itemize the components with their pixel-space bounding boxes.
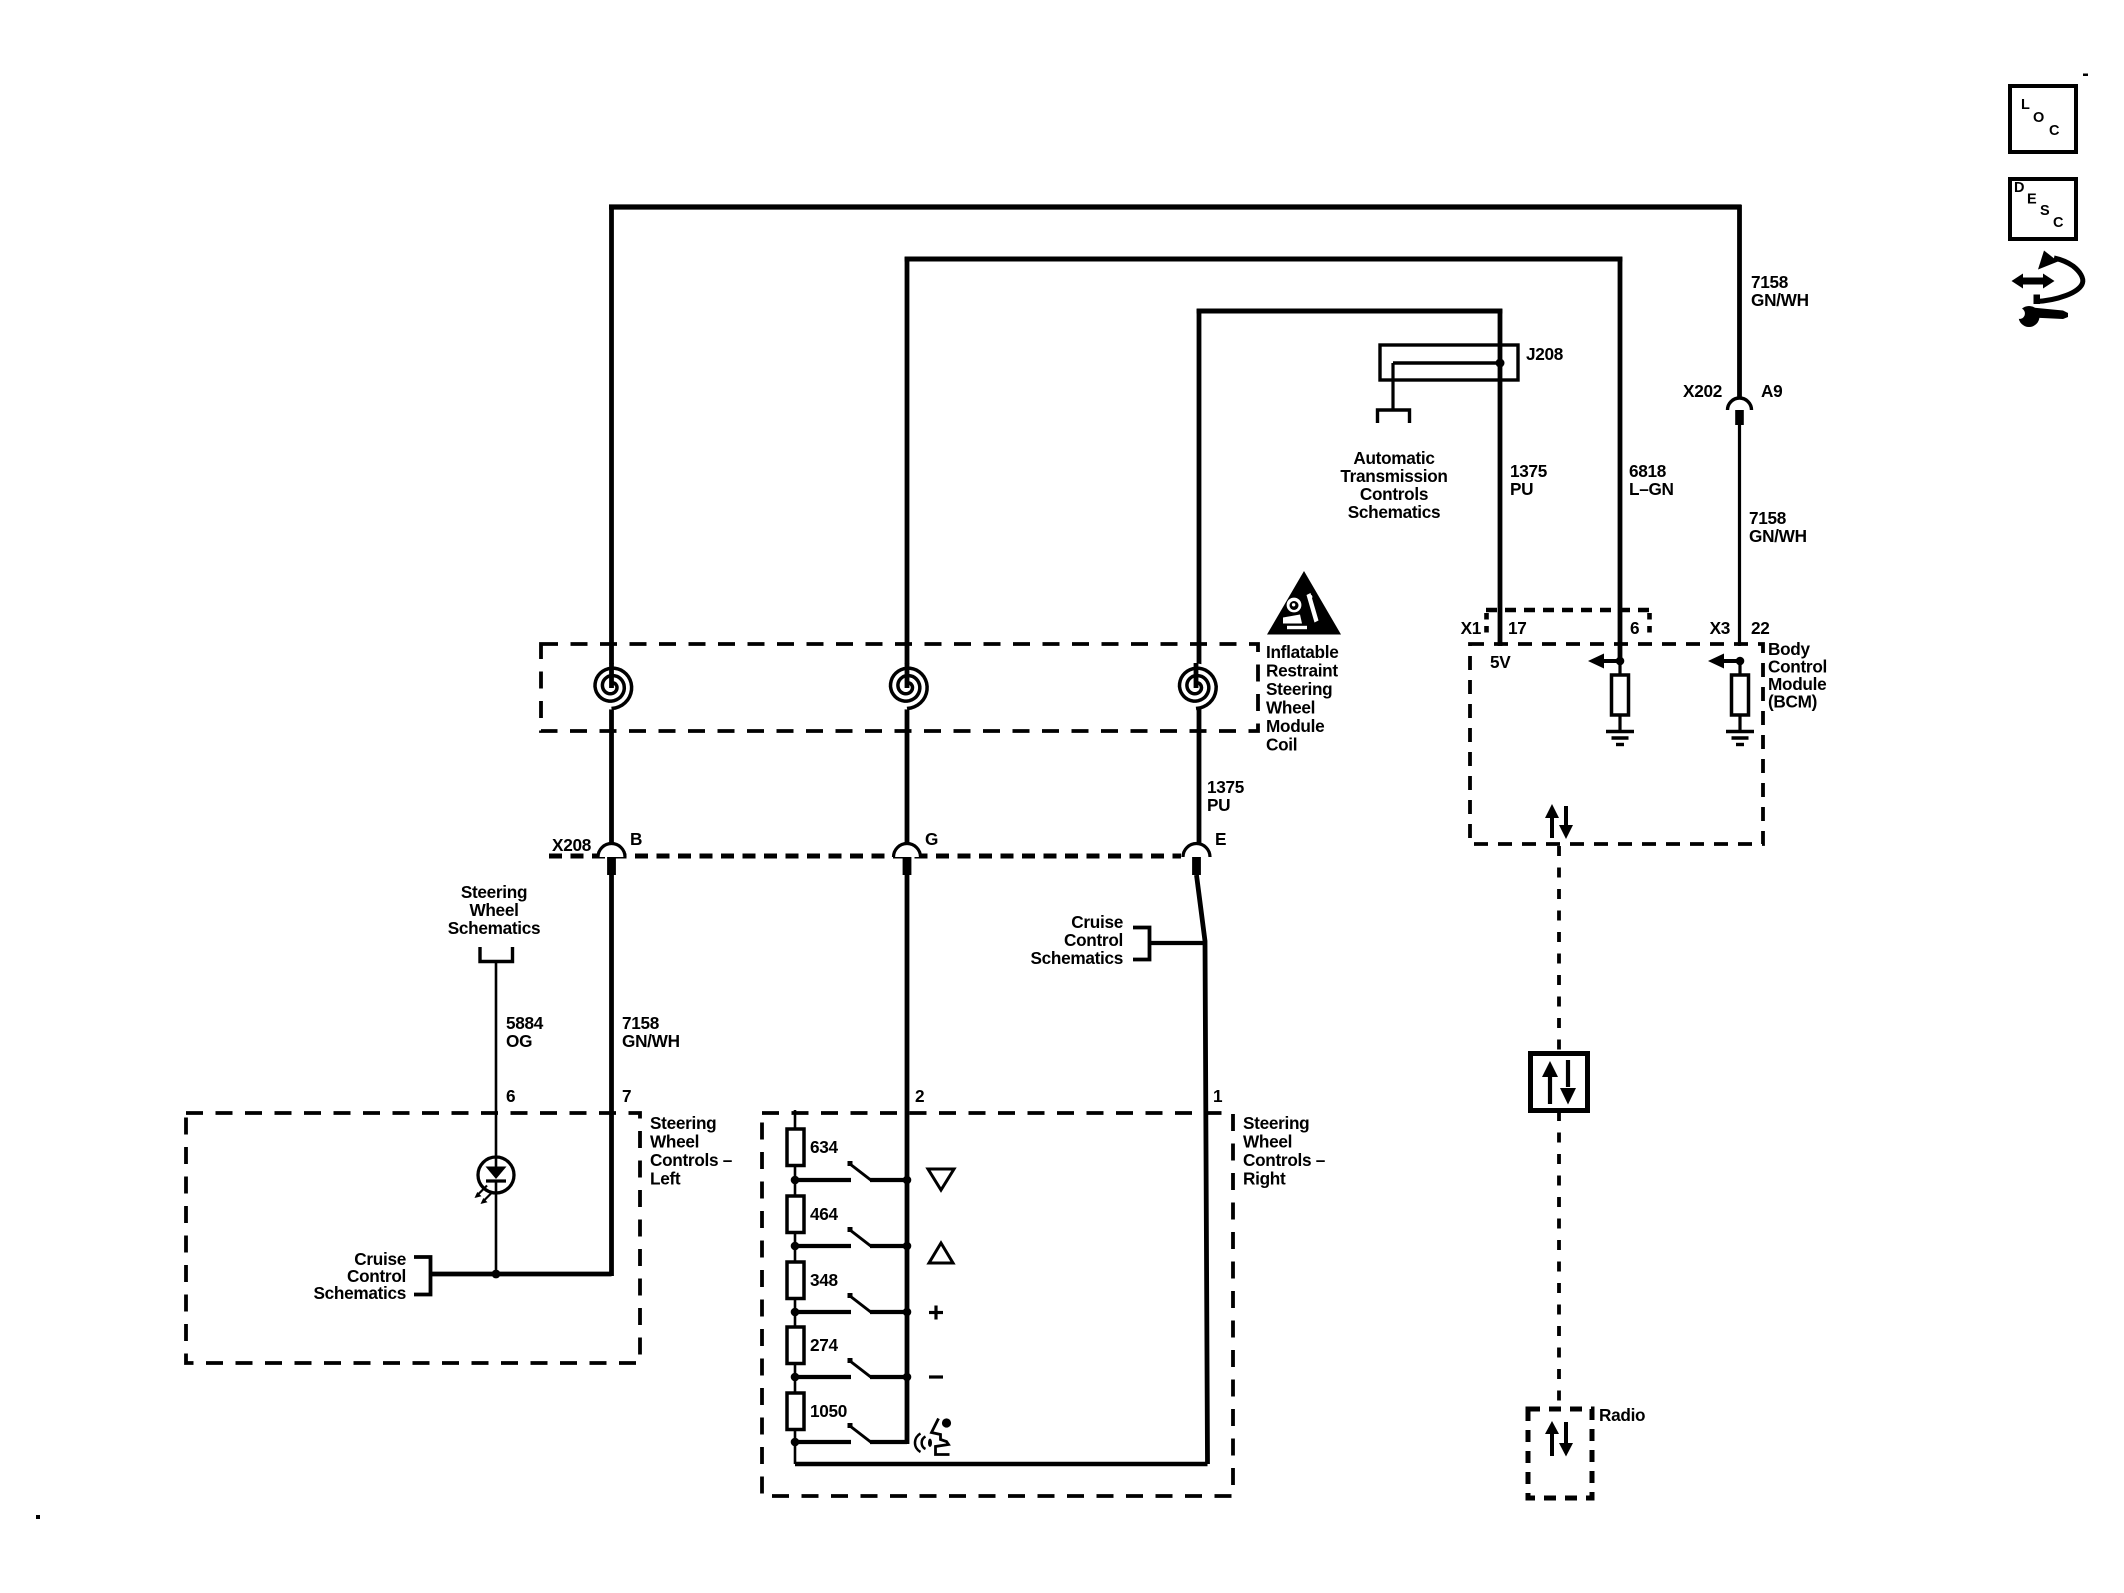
svg-text:464: 464 [810, 1204, 839, 1224]
connector X1 dotted bracket [1486, 608, 1649, 613]
wire 5884 below LED [495, 1193, 498, 1274]
svg-text:Wheel: Wheel [650, 1132, 699, 1152]
coil (clockspring) on wire G [884, 663, 930, 710]
svg-text:7158: 7158 [1751, 272, 1789, 292]
label 6818 L-GN [1629, 461, 1674, 499]
wire chain segment below 348 [794, 1298, 797, 1336]
svg-text:Schematics: Schematics [1030, 948, 1123, 968]
switch row at 1377 [791, 1358, 912, 1381]
label Automatic Transmission Controls Schematics [1340, 448, 1447, 522]
stray mark bottom left [36, 1515, 40, 1519]
svg-text:Radio: Radio [1599, 1405, 1645, 1425]
label 7158 GN/WH (left) [622, 1013, 680, 1051]
wire chain segment below 274 [794, 1363, 797, 1401]
resistor chain stub [794, 1110, 797, 1129]
radio serial data arrows [1545, 1421, 1573, 1457]
svg-text:A9: A9 [1761, 381, 1782, 401]
connector X202 A9 [1728, 398, 1752, 425]
svg-text:22: 22 [1751, 618, 1770, 638]
svg-text:PU: PU [1207, 795, 1230, 815]
svg-text:X3: X3 [1710, 618, 1730, 638]
svg-text:Controls: Controls [1360, 484, 1428, 504]
switch row at 1442 [791, 1423, 907, 1446]
connector X208 terminal B [598, 844, 625, 876]
svg-text:6818: 6818 [1629, 461, 1667, 481]
svg-text:Restraint: Restraint [1266, 661, 1338, 681]
wire 1375 E pigtail (slanted) [1197, 875, 1208, 1464]
svg-text:Schematics: Schematics [1348, 502, 1441, 522]
svg-text:Module: Module [1266, 716, 1324, 736]
label Cruise Control Schematics (right) [1030, 912, 1123, 968]
svg-text:C: C [2049, 123, 2060, 139]
label Inflatable Restraint Steering Wheel Module Coil [1266, 642, 1338, 755]
diagnostic jump icon [2012, 251, 2083, 328]
svg-text:Control: Control [1064, 930, 1123, 950]
wire 7158 GN/WH into left box [609, 875, 614, 1276]
connector X208 terminal G [894, 844, 921, 876]
wire 6818 L-GN right vertical (to BCM pin 6) [1618, 257, 1623, 662]
icon seek-up (open triangle up) [929, 1243, 953, 1263]
label 7158 GN/WH (below X202) [1749, 508, 1807, 546]
BCM internal pull-up at x=1740 [1708, 654, 1754, 745]
wire 1375 PU right vertical (through J208 to BCM pin 17) [1498, 309, 1503, 646]
svg-text:Steering: Steering [461, 882, 527, 902]
svg-text:B: B [630, 829, 642, 849]
svg-text:Inflatable: Inflatable [1266, 642, 1338, 662]
coil (clockspring) on wire B [589, 663, 635, 710]
BCM serial data arrows [1545, 804, 1573, 839]
connector X208 terminal E [1183, 844, 1210, 876]
svg-text:5884: 5884 [506, 1013, 544, 1033]
icon volume plus [929, 1306, 943, 1320]
svg-text:Controls –: Controls – [650, 1150, 733, 1170]
icon volume minus [929, 1375, 943, 1378]
svg-text:E: E [2027, 192, 2037, 208]
svg-text:D: D [2014, 180, 2024, 196]
svg-text:274: 274 [810, 1335, 839, 1355]
svg-text:Controls –: Controls – [1243, 1150, 1326, 1170]
ground symbol at x=1620 [1606, 732, 1634, 745]
wire 7158 GN/WH right vertical (to X202) [1737, 205, 1742, 398]
svg-text:Steering: Steering [650, 1113, 716, 1133]
svg-text:17: 17 [1508, 618, 1527, 638]
wire 6818 L-GN top horizontal [905, 257, 1623, 262]
svg-text:7158: 7158 [622, 1013, 660, 1033]
label Cruise Control Schematics (left) [313, 1249, 406, 1303]
wire J208 stem down [1391, 363, 1394, 410]
svg-text:Cruise: Cruise [1071, 912, 1123, 932]
Steering Wheel Controls Right dashed box [762, 1113, 1233, 1496]
label Steering Wheel Controls - Right [1243, 1113, 1326, 1189]
wire inside J208 [1393, 361, 1500, 364]
ground symbol at x=1740 [1726, 732, 1754, 745]
svg-text:348: 348 [810, 1270, 839, 1290]
junction dot J208 [1496, 359, 1505, 368]
wire 7158 GN/WH top horizontal [609, 204, 1742, 209]
Steering Wheel Controls Left dashed box [186, 1113, 640, 1363]
svg-text:J208: J208 [1526, 344, 1564, 364]
svg-text:1: 1 [1213, 1086, 1223, 1106]
wire chain segment below 634 [794, 1165, 797, 1204]
label Steering Wheel Controls - Left [650, 1113, 733, 1189]
coil (clockspring) on wire E [1173, 663, 1219, 710]
BCM internal pull-up at x=1620 [1588, 654, 1634, 745]
label 1375 PU (above X208 E) [1207, 777, 1245, 815]
Radio dashed box [1528, 1409, 1592, 1498]
svg-text:GN/WH: GN/WH [622, 1031, 680, 1051]
junction dot 5884/cruise [492, 1270, 501, 1279]
svg-text:634: 634 [810, 1137, 839, 1157]
wire 7158 GN/WH X202 to BCM [1738, 425, 1741, 646]
resistor 464 ohm [787, 1196, 839, 1233]
svg-text:G: G [925, 829, 938, 849]
wire 7158 GN/WH left vertical (to X208 B) [609, 205, 614, 844]
switch row at 1180 [791, 1161, 912, 1184]
svg-text:S: S [2040, 203, 2050, 219]
svg-text:C: C [2053, 215, 2064, 231]
svg-text:Transmission: Transmission [1340, 466, 1447, 486]
icon seek-down (open triangle down) [928, 1169, 954, 1190]
wire 6818 bus into right box [905, 875, 910, 1444]
svg-text:5V: 5V [1490, 652, 1511, 672]
serial data dashed wire BCM to gateway [1557, 846, 1561, 1052]
svg-text:Coil: Coil [1266, 735, 1297, 755]
wire 1375 PU left vertical (to X208 E) [1197, 309, 1202, 844]
label Body Control Module (BCM) [1768, 639, 1827, 712]
splice J208 box [1380, 345, 1518, 380]
svg-text:X1: X1 [1461, 618, 1482, 638]
svg-text:Steering: Steering [1243, 1113, 1309, 1133]
svg-text:Wheel: Wheel [1243, 1132, 1292, 1152]
svg-text:Wheel: Wheel [1266, 698, 1315, 718]
switch row at 1246 [791, 1227, 912, 1250]
resistor 348 ohm [787, 1262, 839, 1299]
wire 6818 L-GN left vertical (to X208 G) [905, 257, 910, 844]
label 5884 OG [506, 1013, 544, 1051]
svg-text:OG: OG [506, 1031, 532, 1051]
wire chain segment below 1050 [794, 1429, 797, 1464]
svg-text:7158: 7158 [1749, 508, 1787, 528]
icon voice recognition [915, 1418, 951, 1454]
svg-text:Wheel: Wheel [469, 900, 518, 920]
Body Control Module dashed box [1470, 644, 1763, 844]
svg-text:Right: Right [1243, 1169, 1286, 1189]
svg-text:6: 6 [506, 1086, 515, 1106]
svg-text:L: L [2021, 97, 2030, 113]
wire 5884 OG upper [495, 962, 498, 1158]
resistor 274 ohm [787, 1327, 839, 1364]
connector X208 dotted line [549, 854, 1181, 859]
switch row at 1312 [791, 1293, 912, 1316]
svg-text:X202: X202 [1683, 381, 1722, 401]
label 1375 PU (near J208) [1510, 461, 1548, 499]
svg-text:2: 2 [915, 1086, 924, 1106]
svg-text:GN/WH: GN/WH [1749, 526, 1807, 546]
warning triangle (SIR) [1267, 571, 1341, 635]
svg-text:1050: 1050 [810, 1401, 847, 1421]
wire cruise to 7158 junction [431, 1272, 612, 1277]
svg-text:Steering: Steering [1266, 679, 1332, 699]
resistor 634 ohm [787, 1129, 839, 1166]
stray mark top right [2083, 74, 2088, 77]
wire cruise bracket to E [1150, 941, 1204, 945]
svg-text:X208: X208 [552, 835, 592, 855]
svg-text:Schematics: Schematics [448, 918, 541, 938]
svg-text:O: O [2033, 110, 2044, 126]
LED indicator (cruise lamp) [475, 1157, 515, 1204]
resistor 1050 ohm [787, 1393, 847, 1430]
DESC reference box [2010, 179, 2076, 239]
label Steering Wheel Schematics [448, 882, 541, 938]
svg-text:L–GN: L–GN [1629, 479, 1674, 499]
serial data gateway box [1531, 1054, 1588, 1111]
Inflatable Restraint Steering Wheel Module Coil dashed box [541, 644, 1258, 731]
svg-text:1375: 1375 [1510, 461, 1548, 481]
off-page symbol (Steering Wheel Schematics) [480, 947, 513, 962]
off-page symbol (Automatic Transmission) [1378, 410, 1410, 423]
svg-text:GN/WH: GN/WH [1751, 290, 1809, 310]
off-page bracket (Cruise Control left) [414, 1257, 431, 1295]
label 7158 GN/WH (top right) [1751, 272, 1809, 310]
svg-text:7: 7 [622, 1086, 631, 1106]
LOC reference box [2010, 86, 2076, 152]
svg-text:Automatic: Automatic [1353, 448, 1435, 468]
wire bottom loop of right box [795, 1462, 1208, 1466]
wire 1375 PU top horizontal [1197, 309, 1503, 314]
svg-text:E: E [1215, 829, 1226, 849]
svg-text:PU: PU [1510, 479, 1533, 499]
svg-text:1375: 1375 [1207, 777, 1245, 797]
svg-text:Left: Left [650, 1169, 681, 1189]
serial data dashed wire gateway to radio [1557, 1111, 1561, 1410]
svg-text:Schematics: Schematics [313, 1283, 406, 1303]
off-page bracket (Cruise Control right) [1133, 928, 1150, 960]
wire chain segment below 464 [794, 1232, 797, 1270]
svg-text:6: 6 [1630, 618, 1639, 638]
svg-text:(BCM): (BCM) [1768, 692, 1817, 712]
